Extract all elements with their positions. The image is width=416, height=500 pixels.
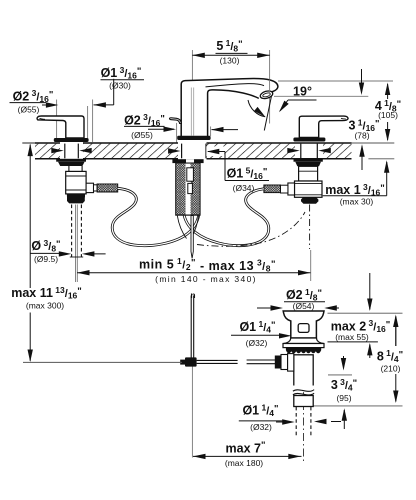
svg-text:(max 30): (max 30) xyxy=(340,196,374,206)
svg-text:n: n xyxy=(190,290,195,300)
svg-text:(max 180): (max 180) xyxy=(225,458,263,468)
svg-text:(Ø55): (Ø55) xyxy=(18,105,40,115)
svg-text:8 1/4": 8 1/4" xyxy=(377,348,403,364)
svg-text:(Ø32): (Ø32) xyxy=(246,338,268,348)
svg-text:(Ø9.5): (Ø9.5) xyxy=(34,254,58,264)
svg-text:(95): (95) xyxy=(336,393,351,403)
svg-text:max 1 3/16": max 1 3/16" xyxy=(325,182,385,198)
svg-text:Ø1 3/16": Ø1 3/16" xyxy=(101,65,142,81)
svg-text:Ø1 1/4": Ø1 1/4" xyxy=(242,402,278,418)
svg-text:(min 140 - max 340): (min 140 - max 340) xyxy=(155,274,257,284)
svg-text:(Ø32): (Ø32) xyxy=(250,422,272,432)
svg-text:5 1/8": 5 1/8" xyxy=(216,38,242,54)
svg-text:(Ø34): (Ø34) xyxy=(233,183,255,193)
svg-text:(105): (105) xyxy=(378,110,398,120)
svg-text:(max 300): (max 300) xyxy=(26,300,64,310)
svg-text:Ø2 3/16": Ø2 3/16" xyxy=(13,88,54,104)
svg-text:max 11 13/16": max 11 13/16" xyxy=(11,285,82,301)
svg-text:(78): (78) xyxy=(354,131,369,141)
svg-text:3 3/4": 3 3/4" xyxy=(331,377,357,393)
svg-text:max 7": max 7" xyxy=(226,440,266,456)
svg-text:19°: 19° xyxy=(293,85,312,99)
svg-text:(130): (130) xyxy=(220,56,240,66)
svg-text:min 5 1/2" - max 13 3/8": min 5 1/2" - max 13 3/8" xyxy=(139,256,276,273)
svg-text:Ø 3/8": Ø 3/8" xyxy=(31,238,60,254)
svg-text:Ø2 3/16": Ø2 3/16" xyxy=(124,112,165,128)
svg-text:(max 55): (max 55) xyxy=(335,332,369,342)
svg-text:(Ø30): (Ø30) xyxy=(109,80,131,90)
svg-text:(Ø54): (Ø54) xyxy=(293,301,315,311)
svg-text:(210): (210) xyxy=(381,364,401,374)
svg-text:Ø1 1/4": Ø1 1/4" xyxy=(239,319,275,335)
svg-text:Ø1 5/16": Ø1 5/16" xyxy=(227,165,268,181)
svg-text:(Ø55): (Ø55) xyxy=(131,130,153,140)
